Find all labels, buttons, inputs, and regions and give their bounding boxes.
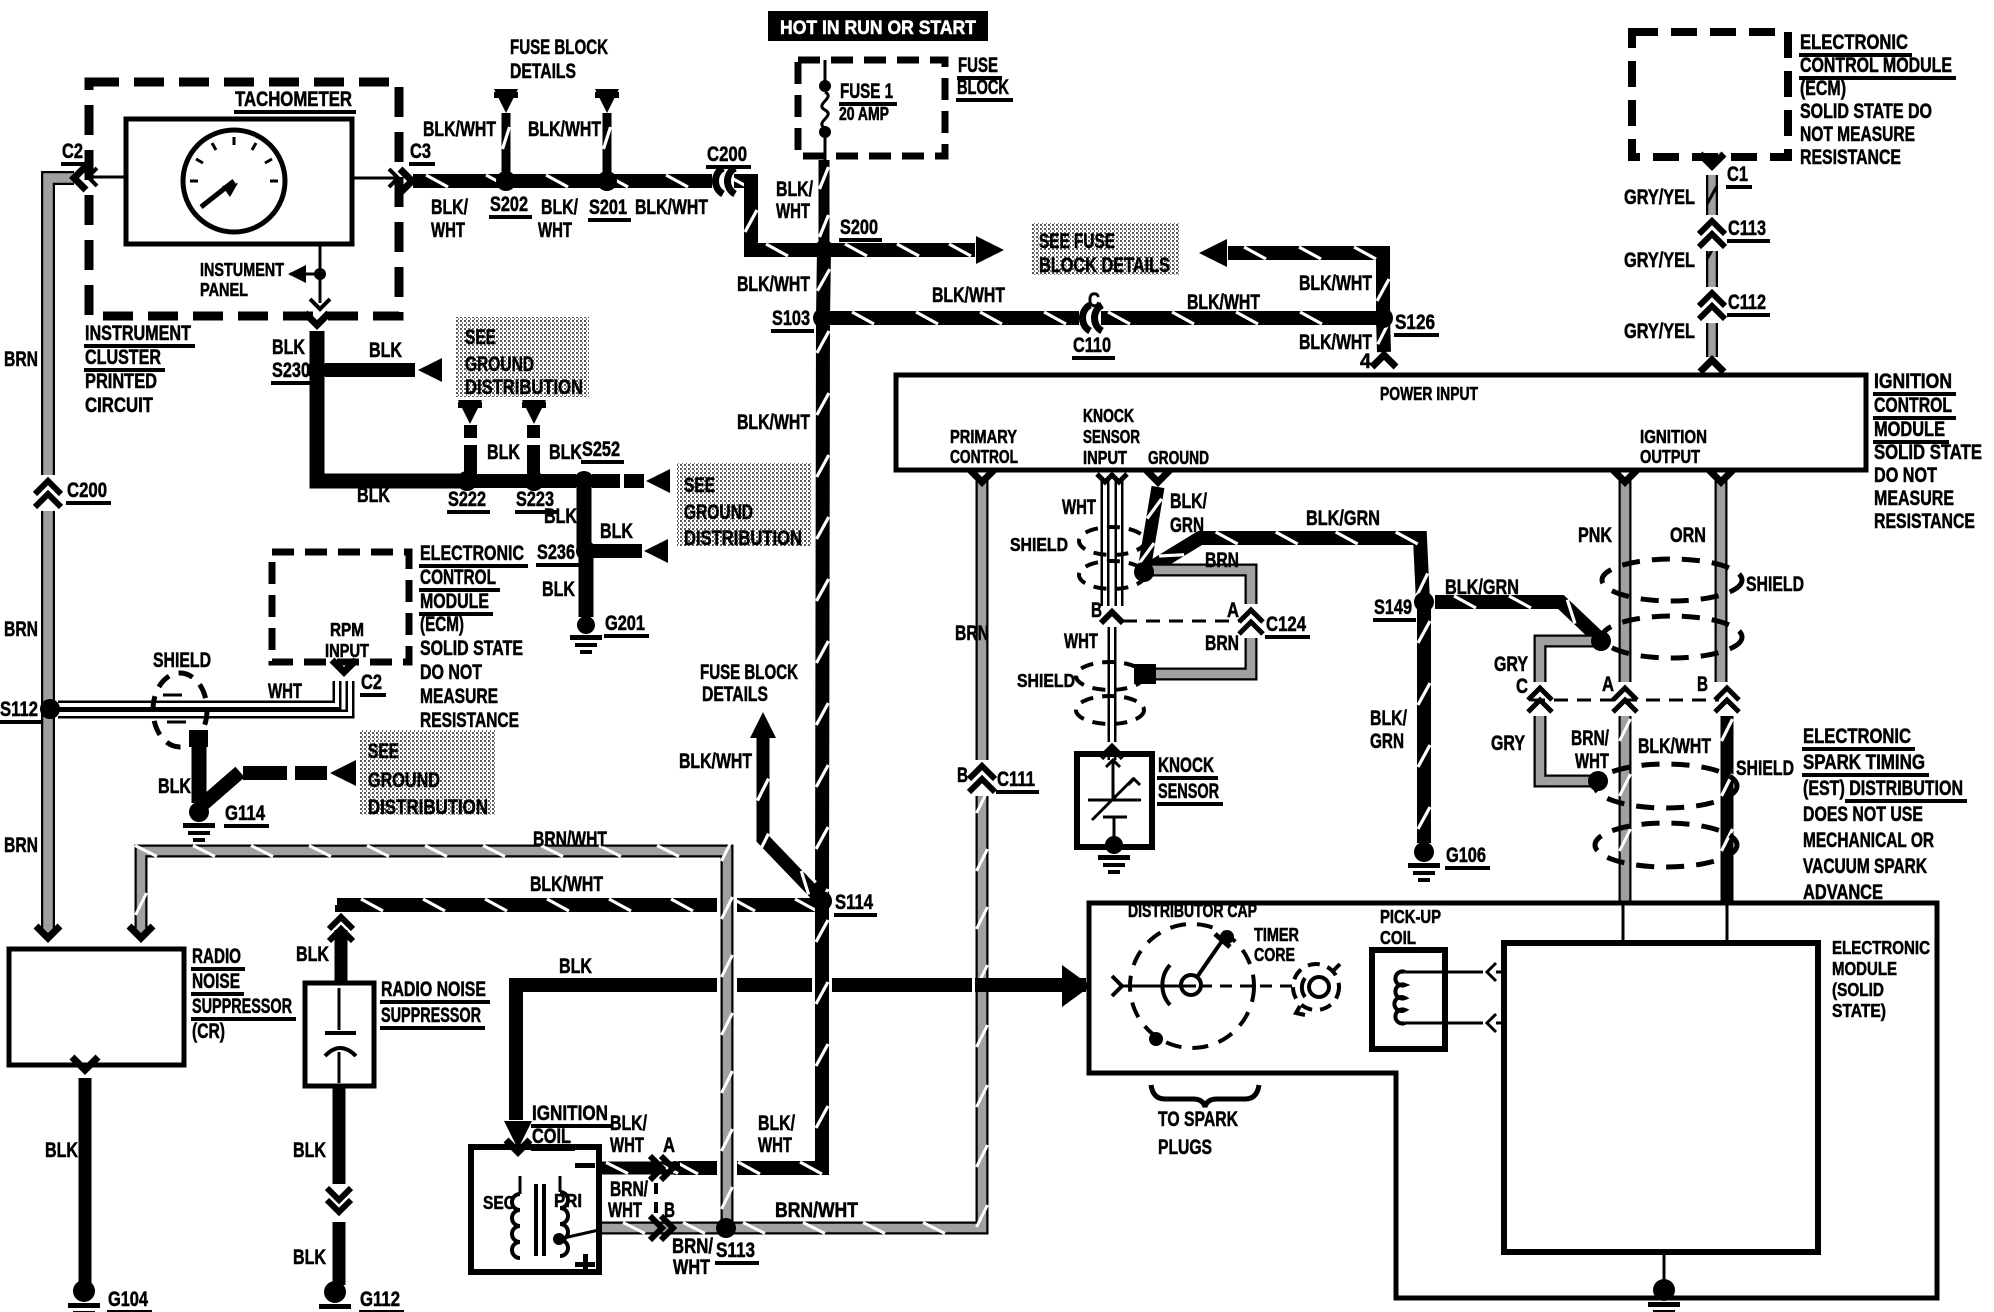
svg-text:BLK/: BLK/ <box>758 1112 795 1135</box>
svg-text:DO NOT: DO NOT <box>1874 464 1937 487</box>
svg-text:HOT IN RUN OR START: HOT IN RUN OR START <box>780 18 976 39</box>
svg-text:S222: S222 <box>448 488 486 511</box>
svg-text:RPM: RPM <box>330 620 364 640</box>
svg-text:VACUUM SPARK: VACUUM SPARK <box>1803 855 1927 878</box>
svg-text:BLK/WHT: BLK/WHT <box>1187 291 1260 314</box>
svg-text:PNK: PNK <box>1578 524 1612 547</box>
svg-text:(ECM): (ECM) <box>1800 77 1846 100</box>
svg-text:C3: C3 <box>410 140 431 163</box>
svg-text:GRN: GRN <box>1370 730 1404 753</box>
svg-text:SEE: SEE <box>368 740 399 763</box>
svg-text:BRN: BRN <box>955 622 989 645</box>
svg-text:DOES NOT USE: DOES NOT USE <box>1803 803 1923 826</box>
svg-text:20 AMP: 20 AMP <box>839 104 889 124</box>
svg-text:BLK: BLK <box>158 775 191 798</box>
svg-text:S202: S202 <box>490 193 528 216</box>
svg-text:CONTROL: CONTROL <box>1874 394 1952 417</box>
svg-text:BLK/WHT: BLK/WHT <box>423 118 496 141</box>
svg-text:DISTRIBUTION: DISTRIBUTION <box>684 527 802 550</box>
svg-text:FUSE BLOCK: FUSE BLOCK <box>700 661 798 684</box>
svg-text:A: A <box>663 1134 675 1157</box>
svg-text:MECHANICAL OR: MECHANICAL OR <box>1803 829 1934 852</box>
svg-text:INSTRUMENT: INSTRUMENT <box>85 322 191 345</box>
svg-text:BLOCK DETAILS: BLOCK DETAILS <box>1039 254 1170 277</box>
svg-text:BLK: BLK <box>293 1246 326 1269</box>
svg-text:BRN: BRN <box>1205 549 1239 572</box>
svg-text:PLUGS: PLUGS <box>1158 1136 1212 1159</box>
svg-text:BLK: BLK <box>544 505 577 528</box>
svg-text:G106: G106 <box>1446 844 1486 867</box>
svg-text:RADIO: RADIO <box>192 945 241 968</box>
svg-text:DISTRIBUTION: DISTRIBUTION <box>465 376 583 399</box>
svg-text:IGNITION: IGNITION <box>1640 427 1707 447</box>
svg-text:FUSE: FUSE <box>958 54 998 77</box>
svg-text:SOLID STATE: SOLID STATE <box>420 637 523 660</box>
svg-text:GROUND: GROUND <box>368 769 440 792</box>
svg-text:BRN/: BRN/ <box>672 1235 713 1258</box>
svg-text:WHT: WHT <box>1064 630 1098 653</box>
svg-text:A: A <box>1227 599 1239 622</box>
svg-text:GROUND: GROUND <box>684 501 753 524</box>
svg-text:MODULE: MODULE <box>1874 418 1945 441</box>
svg-text:S200: S200 <box>840 216 878 239</box>
svg-text:S113: S113 <box>716 1239 755 1262</box>
svg-text:DISTRIBUTOR CAP: DISTRIBUTOR CAP <box>1128 901 1257 921</box>
svg-text:C112: C112 <box>1728 291 1766 314</box>
svg-text:BLK: BLK <box>357 484 390 507</box>
svg-text:SUPPRESSOR: SUPPRESSOR <box>381 1004 481 1027</box>
svg-text:ADVANCE: ADVANCE <box>1803 881 1883 904</box>
svg-text:C200: C200 <box>67 479 107 502</box>
svg-text:FUSE BLOCK: FUSE BLOCK <box>510 36 608 59</box>
svg-text:BLK: BLK <box>369 339 402 362</box>
svg-text:BLK/WHT: BLK/WHT <box>1299 272 1372 295</box>
svg-text:DETAILS: DETAILS <box>702 683 768 706</box>
svg-text:BLK/WHT: BLK/WHT <box>1638 735 1711 758</box>
svg-text:G112: G112 <box>360 1288 400 1311</box>
svg-text:TIMER: TIMER <box>1254 925 1299 945</box>
svg-text:GRY: GRY <box>1494 653 1528 676</box>
svg-text:FUSE 1: FUSE 1 <box>840 80 893 103</box>
svg-text:DISTRIBUTION: DISTRIBUTION <box>368 796 488 819</box>
svg-text:S149: S149 <box>1374 596 1412 619</box>
svg-text:S114: S114 <box>835 891 873 914</box>
svg-text:S126: S126 <box>1395 311 1435 334</box>
svg-text:ELECTRONIC: ELECTRONIC <box>1832 938 1930 958</box>
svg-text:B: B <box>664 1199 675 1222</box>
svg-text:BLK: BLK <box>549 441 582 464</box>
svg-text:(SOLID: (SOLID <box>1832 980 1884 1000</box>
svg-text:WHT: WHT <box>610 1134 644 1157</box>
svg-text:SHIELD: SHIELD <box>1746 573 1804 596</box>
svg-text:COIL: COIL <box>532 1125 571 1148</box>
svg-text:GRY/YEL: GRY/YEL <box>1624 320 1695 343</box>
svg-text:SHIELD: SHIELD <box>1017 671 1075 691</box>
svg-text:C2: C2 <box>62 140 83 163</box>
svg-text:WHT: WHT <box>538 219 572 242</box>
svg-text:C111: C111 <box>997 768 1035 791</box>
svg-text:G104: G104 <box>108 1288 148 1311</box>
svg-text:BRN: BRN <box>1205 632 1239 655</box>
svg-text:WHT: WHT <box>758 1134 792 1157</box>
svg-text:SEE: SEE <box>684 474 715 497</box>
svg-text:C113: C113 <box>1728 217 1766 240</box>
svg-text:PICK-UP: PICK-UP <box>1380 907 1441 927</box>
svg-text:C124: C124 <box>1266 613 1306 636</box>
svg-text:C110: C110 <box>1073 334 1111 357</box>
svg-text:PANEL: PANEL <box>200 280 248 300</box>
svg-text:RESISTANCE: RESISTANCE <box>1874 510 1975 533</box>
svg-text:ELECTRONIC: ELECTRONIC <box>1800 31 1908 54</box>
svg-text:GRY: GRY <box>1491 732 1525 755</box>
svg-text:WHT: WHT <box>1062 496 1096 519</box>
svg-text:BLK/GRN: BLK/GRN <box>1306 507 1380 530</box>
svg-text:BLK/WHT: BLK/WHT <box>932 284 1005 307</box>
svg-text:BLK/WHT: BLK/WHT <box>530 873 603 896</box>
svg-text:G201: G201 <box>605 612 645 635</box>
svg-text:CLUSTER: CLUSTER <box>85 346 161 369</box>
svg-text:SENSOR: SENSOR <box>1083 427 1140 447</box>
svg-text:ORN: ORN <box>1670 524 1706 547</box>
svg-text:INPUT: INPUT <box>325 641 369 661</box>
svg-text:BLK/WHT: BLK/WHT <box>737 273 810 296</box>
svg-text:COIL: COIL <box>1380 928 1416 948</box>
svg-text:BLK/: BLK/ <box>541 196 578 219</box>
svg-text:GRY/YEL: GRY/YEL <box>1624 249 1695 272</box>
svg-text:RESISTANCE: RESISTANCE <box>420 709 519 732</box>
svg-text:BLK/GRN: BLK/GRN <box>1445 576 1519 599</box>
svg-text:ELECTRONIC: ELECTRONIC <box>420 542 524 565</box>
svg-text:(ECM): (ECM) <box>420 613 464 636</box>
svg-text:CONTROL MODULE: CONTROL MODULE <box>1800 54 1952 77</box>
svg-text:BRN/WHT: BRN/WHT <box>533 828 607 851</box>
svg-text:BLK: BLK <box>487 441 520 464</box>
svg-text:BLK/WHT: BLK/WHT <box>679 750 752 773</box>
svg-text:C2: C2 <box>361 671 382 694</box>
svg-text:CORE: CORE <box>1254 945 1295 965</box>
svg-text:S201: S201 <box>589 196 627 219</box>
svg-text:SOLID STATE: SOLID STATE <box>1874 441 1982 464</box>
svg-text:NOT MEASURE: NOT MEASURE <box>1800 123 1915 146</box>
svg-text:CONTROL: CONTROL <box>950 447 1018 467</box>
svg-text:BLK: BLK <box>45 1139 78 1162</box>
svg-text:SPARK TIMING: SPARK TIMING <box>1803 751 1925 774</box>
svg-text:MEASURE: MEASURE <box>420 685 498 708</box>
svg-text:BLK: BLK <box>272 336 305 359</box>
svg-text:BLK/WHT: BLK/WHT <box>737 411 810 434</box>
svg-text:CIRCUIT: CIRCUIT <box>85 394 153 417</box>
svg-text:BLK: BLK <box>600 520 633 543</box>
svg-text:A: A <box>1602 673 1614 696</box>
svg-text:BRN/: BRN/ <box>610 1178 648 1201</box>
svg-text:SHIELD: SHIELD <box>1010 535 1068 555</box>
svg-text:WHT: WHT <box>1575 750 1609 773</box>
svg-text:BLK/WHT: BLK/WHT <box>635 196 708 219</box>
svg-text:NOISE: NOISE <box>192 970 240 993</box>
svg-text:KNOCK: KNOCK <box>1158 754 1214 777</box>
svg-text:BRN: BRN <box>4 834 38 857</box>
svg-text:C200: C200 <box>707 143 747 166</box>
svg-text:C: C <box>1088 289 1100 312</box>
svg-text:C: C <box>1516 675 1528 698</box>
svg-text:ELECTRONIC: ELECTRONIC <box>1803 725 1911 748</box>
svg-text:S112: S112 <box>0 698 38 721</box>
svg-text:WHT: WHT <box>673 1256 710 1279</box>
svg-text:SHIELD: SHIELD <box>153 649 211 672</box>
svg-text:TACHOMETER: TACHOMETER <box>235 88 352 111</box>
svg-text:S230: S230 <box>272 359 310 382</box>
svg-text:BLOCK: BLOCK <box>957 76 1009 99</box>
svg-text:IGNITION: IGNITION <box>1874 370 1952 393</box>
svg-text:SEE FUSE: SEE FUSE <box>1039 230 1115 253</box>
svg-text:KNOCK: KNOCK <box>1083 406 1134 426</box>
svg-text:PRINTED: PRINTED <box>85 370 157 393</box>
svg-text:TO SPARK: TO SPARK <box>1158 1108 1238 1131</box>
svg-text:BLK/: BLK/ <box>1170 490 1207 513</box>
svg-text:DETAILS: DETAILS <box>510 60 576 83</box>
svg-text:SOLID STATE DO: SOLID STATE DO <box>1800 100 1932 123</box>
svg-text:GRN: GRN <box>1170 514 1204 537</box>
svg-text:GROUND: GROUND <box>465 353 534 376</box>
svg-text:PRIMARY: PRIMARY <box>950 427 1017 447</box>
svg-text:IGNITION: IGNITION <box>532 1102 608 1125</box>
svg-text:BLK/: BLK/ <box>431 196 468 219</box>
svg-text:MODULE: MODULE <box>420 590 489 613</box>
svg-text:GROUND: GROUND <box>1148 448 1209 468</box>
svg-text:CONTROL: CONTROL <box>420 566 496 589</box>
svg-text:BLK: BLK <box>293 1139 326 1162</box>
svg-text:GRY/YEL: GRY/YEL <box>1624 186 1695 209</box>
svg-text:S103: S103 <box>772 307 810 330</box>
svg-text:S252: S252 <box>582 438 620 461</box>
svg-text:BLK/: BLK/ <box>610 1112 647 1135</box>
svg-text:(CR): (CR) <box>192 1020 225 1043</box>
svg-text:MODULE: MODULE <box>1832 959 1897 979</box>
svg-text:MEASURE: MEASURE <box>1874 487 1954 510</box>
svg-text:BRN: BRN <box>4 348 38 371</box>
svg-text:WHT: WHT <box>268 680 302 703</box>
svg-text:RADIO NOISE: RADIO NOISE <box>381 978 486 1001</box>
svg-text:BLK: BLK <box>559 955 592 978</box>
svg-text:WHT: WHT <box>608 1199 642 1222</box>
svg-text:C1: C1 <box>1727 163 1748 186</box>
svg-text:POWER INPUT: POWER INPUT <box>1380 384 1478 404</box>
svg-text:BLK/: BLK/ <box>776 178 813 201</box>
svg-text:BRN/WHT: BRN/WHT <box>775 1199 858 1222</box>
svg-text:SHIELD: SHIELD <box>1736 757 1794 780</box>
svg-text:BLK: BLK <box>542 578 575 601</box>
svg-text:BLK/: BLK/ <box>1370 707 1407 730</box>
svg-text:RESISTANCE: RESISTANCE <box>1800 146 1901 169</box>
svg-text:BLK: BLK <box>296 943 329 966</box>
svg-text:BRN/: BRN/ <box>1571 727 1609 750</box>
svg-text:INPUT: INPUT <box>1083 448 1127 468</box>
svg-text:SUPPRESSOR: SUPPRESSOR <box>192 995 292 1018</box>
svg-text:SENSOR: SENSOR <box>1158 780 1219 803</box>
svg-text:WHT: WHT <box>431 219 465 242</box>
svg-text:S236: S236 <box>537 541 575 564</box>
svg-text:B: B <box>957 764 968 787</box>
svg-text:BLK/WHT: BLK/WHT <box>528 118 601 141</box>
svg-text:STATE): STATE) <box>1832 1001 1886 1021</box>
svg-text:4: 4 <box>1360 350 1371 373</box>
svg-text:B: B <box>1697 673 1708 696</box>
svg-text:SEE: SEE <box>465 326 496 349</box>
svg-text:BRN: BRN <box>4 618 38 641</box>
svg-text:INSTUMENT: INSTUMENT <box>200 260 284 280</box>
svg-text:B: B <box>1091 599 1102 622</box>
svg-text:(EST) DISTRIBUTION: (EST) DISTRIBUTION <box>1803 777 1963 800</box>
svg-text:OUTPUT: OUTPUT <box>1640 447 1700 467</box>
svg-text:G114: G114 <box>225 802 265 825</box>
svg-text:WHT: WHT <box>776 200 810 223</box>
svg-text:DO NOT: DO NOT <box>420 661 482 684</box>
